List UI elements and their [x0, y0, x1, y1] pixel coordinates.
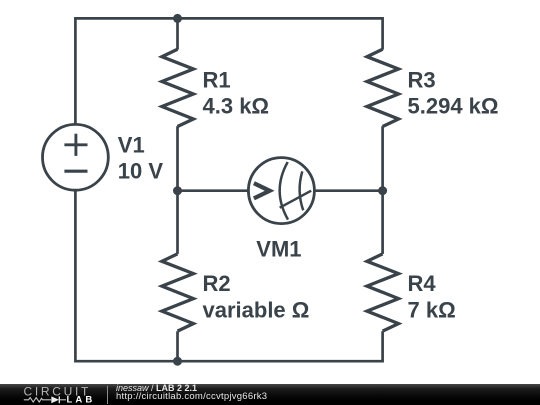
wire mid branch R1 to mid node [176, 126, 179, 254]
svg-text:VM1: VM1 [256, 236, 301, 261]
svg-text:7 kΩ: 7 kΩ [408, 297, 456, 322]
node junction dot mid-right [378, 186, 387, 195]
svg-text:variable Ω: variable Ω [203, 297, 310, 322]
svg-text:V1: V1 [118, 133, 145, 158]
svg-text:R4: R4 [408, 271, 437, 296]
wire middle horizontal left of VM1 [178, 189, 249, 192]
logo diode [51, 396, 59, 403]
resistor R4 [367, 254, 399, 331]
CircuitLab logo [0, 384, 100, 405]
resistor R1 [162, 49, 194, 126]
wire mid branch top [176, 18, 179, 49]
svg-text:R1: R1 [203, 67, 231, 92]
node junction dot mid-left [173, 186, 182, 195]
node junction dot bottom [173, 357, 182, 366]
wire mid branch R2 to bottom [176, 331, 179, 361]
logo resistor zigzag [24, 398, 51, 402]
footer separator [107, 386, 108, 404]
footer bar [0, 384, 540, 405]
svg-text:5.294 kΩ: 5.294 kΩ [408, 93, 499, 118]
svg-text:4.3 kΩ: 4.3 kΩ [203, 93, 270, 118]
wire middle horizontal right of VM1 [315, 189, 383, 192]
footer line 2 [116, 391, 416, 402]
footer line 1 [116, 383, 416, 393]
wire bottom horizontal with corners [75, 190, 382, 361]
wire top horizontal with left and right corners [75, 18, 382, 124]
svg-text:10 V: 10 V [118, 159, 164, 184]
voltmeter VM1 [248, 158, 314, 224]
svg-text:LAB: LAB [67, 395, 96, 405]
resistor R3 [367, 49, 399, 126]
svg-text:R2: R2 [203, 271, 231, 296]
voltage source V1 [43, 124, 109, 190]
node junction dot top [173, 14, 182, 23]
wire right branch R3 to mid node [381, 126, 384, 254]
svg-text:R3: R3 [408, 67, 436, 92]
resistor R2 [162, 254, 194, 331]
